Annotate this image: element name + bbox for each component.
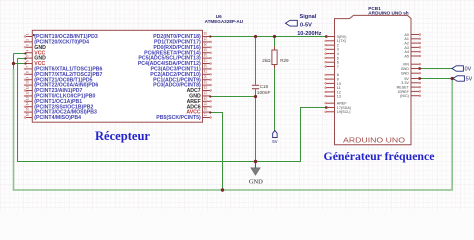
junction signal net / C18 top	[254, 35, 257, 38]
PCB1 left pins stubs and names	[325, 35, 351, 114]
svg-text:13: 13	[26, 96, 30, 100]
svg-text:GND: GND	[249, 179, 263, 186]
svg-text:26: 26	[204, 64, 208, 68]
junction U6 AVCC pin	[209, 111, 211, 113]
wire U6 GND pin to C18 bottom	[210, 96, 255, 98]
svg-text:4: 4	[26, 50, 30, 52]
svg-text:6: 6	[26, 60, 30, 62]
svg-text:18: 18	[204, 107, 208, 111]
junction 5V wire / 5V rail riser	[451, 77, 454, 80]
U6 left pins 1-16 stubs, numbers, names	[24, 33, 102, 121]
junction U6 VCC pin 4	[24, 52, 26, 54]
svg-text:13: 13	[337, 95, 341, 99]
svg-text:12: 12	[26, 91, 30, 95]
svg-text:32: 32	[204, 32, 208, 36]
junction U6 VCC pin 6	[24, 62, 26, 64]
svg-text:27: 27	[204, 59, 208, 63]
svg-text:7: 7	[337, 65, 339, 69]
IC U6 ATMEGA328P-AU body	[32, 30, 202, 122]
junction U6 GND pin	[209, 95, 211, 97]
svg-text:R29: R29	[280, 58, 289, 63]
svg-text:25: 25	[204, 69, 208, 73]
svg-text:11: 11	[26, 86, 30, 90]
svg-text:29: 29	[204, 48, 208, 52]
ground symbol arrow	[251, 162, 260, 176]
net flag 5V right	[453, 76, 473, 83]
module PCB1 ARDUINO UNO sh body	[335, 15, 412, 144]
capacitor C18 plates	[252, 85, 259, 88]
wire Arduino GND pin to 0V flag	[420, 68, 452, 70]
junction 5V rail / AVCC wire	[221, 188, 224, 191]
wire Arduino 5V pin to 5V flag	[420, 78, 453, 80]
svg-text:PB5(SCK/PCINT5): PB5(SCK/PCINT5)	[156, 115, 201, 121]
svg-text:5V: 5V	[466, 77, 473, 83]
svg-text:14: 14	[26, 102, 30, 106]
svg-text:5V: 5V	[272, 139, 277, 144]
svg-text:Générateur fréquence: Générateur fréquence	[324, 149, 435, 163]
wire C18 top lead to signal net	[255, 37, 257, 85]
net flag 0V	[452, 66, 472, 73]
svg-text:17: 17	[204, 113, 208, 117]
wire PD2 signal net (pin PD2 to Arduino pin 0(RX))	[210, 36, 326, 38]
svg-text:A5: A5	[404, 54, 409, 58]
svg-text:7: 7	[26, 66, 30, 68]
svg-text:ARDUINO UNO sh: ARDUINO UNO sh	[368, 10, 409, 15]
svg-text:15: 15	[26, 107, 30, 111]
PCB1 right pins stubs and names	[397, 33, 421, 98]
svg-text:100nF: 100nF	[257, 90, 271, 96]
svg-text:21: 21	[204, 91, 208, 95]
svg-text:GND: GND	[401, 67, 410, 71]
wire U6 AVCC pin down to 5V rail	[210, 113, 222, 191]
svg-text:8: 8	[26, 71, 30, 73]
svg-text:10: 10	[26, 80, 30, 84]
svg-text:(PCINT4/MISO)PB4: (PCINT4/MISO)PB4	[34, 115, 81, 121]
junction GND wire / C18 bottom	[254, 95, 257, 98]
wire GND rail to Arduino SDA pin	[18, 59, 327, 162]
svg-text:1: 1	[26, 33, 30, 35]
wire VCC pins to 5V net	[14, 54, 26, 71]
junction PCB1 pin 17(SDA)	[325, 106, 328, 109]
svg-text:Signal: Signal	[300, 14, 317, 20]
svg-text:30: 30	[204, 42, 208, 46]
svg-text:C18: C18	[260, 84, 269, 89]
svg-text:10-200Hz: 10-200Hz	[297, 31, 321, 37]
junction U6 PD2 pin	[209, 35, 211, 37]
svg-text:0V: 0V	[465, 67, 472, 73]
svg-text:3: 3	[26, 44, 30, 46]
svg-text:ARDUINO UNO: ARDUINO UNO	[343, 136, 405, 145]
svg-text:28: 28	[204, 53, 208, 57]
svg-text:23: 23	[204, 80, 208, 84]
wire R29 bottom to 5V flag	[274, 37, 276, 131]
svg-text:31: 31	[204, 37, 208, 41]
svg-text:GND: GND	[401, 72, 410, 76]
svg-text:2kΩ: 2kΩ	[262, 58, 271, 63]
svg-text:9: 9	[26, 77, 30, 79]
junction PCB1 GND pin	[418, 67, 421, 70]
junction U6 GND pin 5	[24, 57, 26, 59]
svg-text:(N/C): (N/C)	[400, 94, 409, 98]
resistor R29 body	[272, 47, 277, 69]
wire 5V rail bottom	[14, 69, 453, 190]
svg-text:24: 24	[204, 75, 208, 79]
power flag 5V below R29	[272, 131, 277, 144]
svg-text:2: 2	[26, 39, 30, 41]
net flag Signal arrow	[286, 20, 298, 26]
svg-text:19: 19	[204, 102, 208, 106]
svg-text:20: 20	[204, 96, 208, 100]
junction signal net / R29 top	[273, 35, 276, 38]
junction PCB1 5V pin	[418, 77, 421, 80]
U6 right pins 32-17 stubs, numbers, names	[138, 32, 212, 122]
wire C18 bottom down to GND rail	[255, 89, 257, 161]
junction PCB1 pin 0(RX)	[325, 35, 328, 38]
svg-text:Récepteur: Récepteur	[95, 129, 150, 143]
svg-text:22: 22	[204, 86, 208, 90]
svg-text:19(SCL): 19(SCL)	[337, 110, 351, 114]
svg-text:16: 16	[26, 113, 30, 117]
junction GND rail / GND symbol	[254, 160, 257, 163]
svg-text:ATMEGA328P-AU: ATMEGA328P-AU	[205, 19, 244, 24]
junction VCC wires	[12, 62, 15, 65]
svg-text:0-5V: 0-5V	[300, 23, 312, 29]
svg-text:5: 5	[26, 55, 30, 57]
